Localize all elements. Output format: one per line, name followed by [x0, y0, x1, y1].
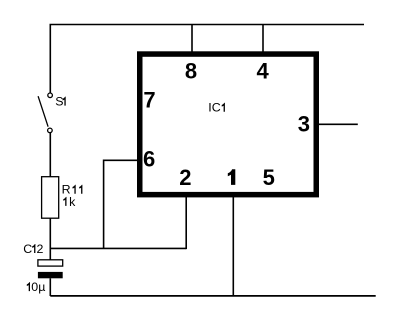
svg-text:IC: IC	[208, 101, 220, 115]
switch S1	[38, 93, 66, 133]
pin 1 label	[228, 169, 236, 185]
wire capacitor to bottom rail	[49, 278, 51, 296]
wire resistor to capacitor	[49, 218, 51, 260]
svg-text:7: 7	[143, 88, 155, 113]
wire pin 1 to bottom rail	[232, 196, 234, 296]
svg-text:0µ: 0µ	[31, 280, 45, 294]
IC IC1 box	[140, 54, 317, 195]
svg-text:2: 2	[179, 165, 191, 190]
wire pin 3	[319, 123, 358, 125]
wire top rail	[50, 25, 364, 94]
svg-text:5: 5	[263, 165, 275, 190]
wire pin 8 to top rail	[191, 25, 193, 53]
svg-text:k: k	[69, 195, 76, 209]
svg-text:3: 3	[298, 111, 310, 136]
svg-text:C: C	[23, 242, 32, 256]
wire switch to resistor	[49, 133, 51, 177]
wire pin 6	[104, 160, 138, 248]
node junction wire C12/pin6/pin2	[50, 247, 186, 249]
capacitor C12	[23, 242, 62, 294]
svg-text:6: 6	[143, 147, 155, 172]
svg-text:8: 8	[185, 58, 197, 83]
svg-text:4: 4	[257, 58, 270, 83]
wire pin 4 to top rail	[262, 25, 264, 53]
resistor R11	[42, 177, 83, 219]
svg-text:2: 2	[36, 242, 43, 256]
svg-text:S: S	[55, 95, 63, 109]
wire bottom rail	[50, 295, 375, 297]
wire pin 2	[185, 196, 187, 249]
